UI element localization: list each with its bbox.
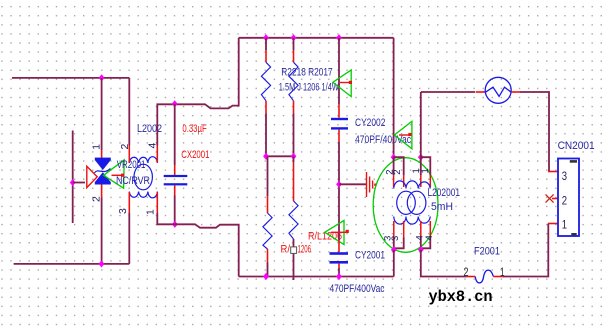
svg-text:CX2001: CX2001	[181, 149, 209, 161]
svg-text:3: 3	[117, 208, 129, 214]
resistor R2017 zigzag	[289, 62, 298, 101]
svg-text:1: 1	[500, 267, 505, 279]
svg-text:1206: 1206	[298, 244, 312, 256]
svg-text:2: 2	[119, 144, 131, 150]
capacitor CY2001 top red lead	[338, 240, 340, 252]
svg-text:3: 3	[562, 171, 567, 183]
resistor R2017 pin 2 red lead	[293, 101, 295, 114]
wire lower-left resistor bottom lead	[267, 263, 269, 277]
choke L2001 bottom coil	[394, 217, 431, 225]
wire VR2001 vertical	[101, 78, 103, 150]
resistor R2017 pin 1 red lead	[293, 50, 295, 62]
wire VR2001 vertical lower	[101, 198, 103, 264]
fuse F2001 red lead right	[493, 276, 502, 278]
wire bottom rail A	[239, 276, 394, 278]
marker green triangle 3	[394, 121, 412, 149]
node junction L2001 top-left	[391, 154, 397, 161]
svg-text:1: 1	[91, 144, 103, 150]
inductor L2002 pin 3 red lead	[128, 192, 130, 213]
node junction mid right	[291, 153, 297, 160]
inductor L2002 pin 4 red lead	[156, 146, 158, 163]
node junction on dangling wire	[70, 179, 76, 186]
wire top rail of filter block	[239, 37, 394, 39]
capacitor CY2001 plates	[330, 252, 349, 255]
svg-text:3: 3	[390, 236, 401, 241]
varistor VR2001 green triangle	[104, 160, 125, 188]
thermistor red lead left	[476, 91, 485, 93]
resistor lower-right lower lead	[293, 239, 295, 280]
node junction L2001 bottom-right	[418, 246, 424, 253]
wire ground stub	[339, 183, 366, 185]
svg-text:2: 2	[464, 267, 469, 279]
thermistor circle	[485, 77, 511, 103]
node junction at VR top	[99, 74, 105, 81]
svg-text:1.5M J 1206 1/4W: 1.5M J 1206 1/4W	[279, 81, 339, 93]
svg-text:CY2001: CY2001	[355, 249, 385, 261]
thermistor zigzag	[485, 87, 511, 96]
node junction L2001 bottom-left	[391, 246, 397, 253]
svg-text:2: 2	[562, 195, 567, 207]
inductor L2002 bottom coil	[129, 192, 157, 198]
capacitor CY2002 top red lead	[338, 104, 340, 118]
connector CN2001 inner marks	[570, 160, 577, 163]
svg-text:470PF/400Vac: 470PF/400Vac	[330, 283, 385, 295]
node junction CY2001 bottom	[336, 273, 342, 280]
wire L2001 pin4 down and right rail B	[421, 250, 467, 277]
wire CY2002 to CY2001	[338, 142, 340, 240]
wire top-left input L	[12, 77, 129, 79]
wire CY2002 vertical from top rail	[338, 38, 340, 104]
node junction CX2001 top	[172, 100, 178, 107]
choke L2001 top coil	[394, 181, 431, 189]
svg-text:4: 4	[424, 235, 435, 240]
marker red line 3	[399, 134, 411, 136]
capacitor CX2001 bottom red lead	[174, 185, 176, 195]
thermistor red lead right	[511, 91, 520, 93]
ground earth symbol	[367, 172, 373, 197]
choke L2001 green circle	[373, 158, 438, 253]
svg-text:L2002: L2002	[137, 123, 162, 135]
svg-text:R2218 R2017: R2218 R2017	[281, 66, 332, 78]
resistor lower-right zigzag	[289, 201, 298, 239]
wire lower-right resistor top lead	[293, 156, 295, 162]
fuse F2001 squiggle	[475, 270, 493, 283]
wire dangling vertical left of VR	[72, 131, 74, 224]
wire R2218 top lead	[265, 38, 267, 50]
varistor VR2001 red triangle	[87, 166, 97, 187]
svg-text:1: 1	[420, 168, 431, 173]
wire bottom jog to block	[175, 224, 239, 276]
svg-text:2: 2	[91, 196, 103, 202]
fuse F2001 red lead left	[467, 276, 475, 278]
capacitor CY2001 bottom red lead	[338, 264, 340, 268]
wire stub to varistor	[73, 182, 85, 184]
marker green triangle 2	[325, 220, 344, 244]
svg-text:CY2002: CY2002	[355, 117, 385, 129]
varistor VR2001 pin 1 red lead	[101, 150, 103, 158]
resistor lower-left pin 1 red lead	[267, 196, 269, 213]
resistor R2218 zigzag	[261, 62, 270, 101]
wire bottom-left input N	[14, 263, 130, 265]
choke L2001 pin bends top	[394, 157, 404, 175]
svg-text:1: 1	[145, 209, 157, 215]
capacitor CX2001 plates	[164, 175, 188, 177]
marker red line 2	[331, 231, 347, 233]
varistor VR2001 red line	[112, 174, 122, 176]
inductor L2002 core circle	[134, 164, 152, 190]
choke L2001 pin bends bottom	[394, 238, 404, 249]
wire left input down to L2002 pin2	[128, 78, 130, 146]
choke L2001 top red pins	[394, 175, 431, 187]
choke L2001 core circles	[397, 191, 416, 214]
node junction lower-left resistor bottom	[263, 273, 269, 280]
wire CX2001 vertical bottom	[174, 196, 176, 225]
wire mid rail	[266, 155, 294, 157]
svg-text:F2001: F2001	[474, 245, 500, 257]
resistor lower-left pin 2 red lead	[267, 249, 269, 263]
resistor lower-left zigzag	[263, 213, 272, 249]
svg-text:1: 1	[562, 220, 567, 232]
wire CX2001 vertical top	[174, 104, 176, 165]
node junction CY2002 top	[336, 34, 342, 41]
choke L2001 bottom red pins	[394, 221, 431, 238]
node junction R2017 top	[291, 34, 297, 41]
svg-text:L202001: L202001	[428, 187, 461, 199]
wire L2001 pin2 vertical	[393, 38, 395, 157]
no-ERC X marker on pin 2	[546, 194, 554, 202]
connector CN2001 red pin stubs	[548, 171, 558, 173]
connector CN2001 body	[558, 159, 579, 237]
varistor VR2001 pin 2 red lead	[101, 184, 103, 198]
node junction CX2001 bottom	[172, 221, 178, 228]
wire up to L2002 pin3	[128, 213, 130, 264]
varistor VR2001 blue TVS body	[95, 158, 111, 185]
marker green triangle 1	[333, 70, 351, 97]
wire to CN2001 pin3	[520, 92, 549, 172]
varistor VR2001 red dot	[121, 174, 124, 177]
resistor R2218 pin 1 red lead	[265, 50, 267, 62]
svg-text:2: 2	[392, 169, 403, 174]
svg-text:R/: R/	[281, 244, 291, 256]
marker red line 1	[340, 82, 352, 84]
inductor L2002 pin 2 red lead	[128, 146, 130, 163]
wire thermistor rail top	[421, 91, 476, 93]
wire L2001 top-right vertical from thermistor rail	[420, 92, 422, 157]
svg-text:CN2001: CN2001	[558, 140, 595, 152]
node junction R2218 top	[263, 34, 269, 41]
wire L2002 pin4 up and right with jog	[157, 38, 238, 146]
wire lower-left resistor top lead	[267, 156, 269, 196]
wire R2017 top lead	[293, 38, 295, 50]
capacitor CY2002 bottom red lead	[338, 130, 340, 142]
wire L2002 pin1 to CX bottom junction	[157, 213, 174, 224]
wire R2218 bottom lead	[265, 114, 267, 157]
capacitor CX2001 top red lead	[174, 165, 176, 175]
svg-text:NC/RVR: NC/RVR	[116, 175, 150, 187]
wire L2001 pin3 down to rail	[393, 250, 395, 277]
svg-text:5mH: 5mH	[431, 201, 453, 213]
wire fuse to CN2001 pin1	[502, 224, 548, 277]
node junction mid left	[263, 153, 269, 160]
svg-text:0.33µF: 0.33µF	[182, 123, 206, 135]
varistor VR2001 blue curve	[95, 169, 111, 173]
inductor L2002 pin 1 red lead	[156, 192, 158, 213]
node junction bottom-left	[99, 260, 105, 267]
resistor lower-right pin 1 red lead	[293, 162, 295, 201]
node junction L2001 top-right	[418, 154, 424, 161]
capacitor CY2002 plates	[331, 118, 348, 120]
svg-text:ybx8.cn: ybx8.cn	[429, 288, 493, 306]
resistor R2218 pin 2 red lead	[265, 101, 267, 114]
inductor L2002 top coil	[129, 157, 157, 163]
wire R2017 bottom lead	[293, 114, 295, 157]
node junction ground	[336, 181, 342, 188]
